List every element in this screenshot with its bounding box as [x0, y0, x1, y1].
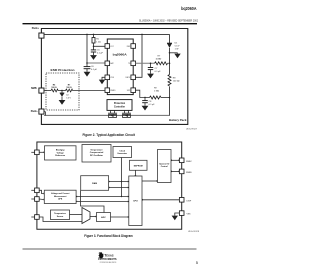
transistor Q1 discharge FET — [108, 110, 117, 117]
wire AFE CPU bus 2 — [76, 201, 129, 203]
footer rule — [23, 248, 197, 250]
node VCC — [93, 46, 95, 48]
svg-text:100 kΩ: 100 kΩ — [173, 80, 180, 83]
svg-text:1 MΩ: 1 MΩ — [154, 90, 159, 93]
block CPU — [129, 176, 142, 226]
node TS filter — [150, 63, 152, 65]
svg-text:R7: R7 — [68, 85, 70, 87]
svg-text:PACK: PACK — [126, 76, 132, 79]
resistor R5 — [92, 34, 101, 50]
wire EEPROM to CPU — [134, 170, 136, 176]
TI logo glyph — [98, 252, 103, 259]
wire x87 vertical to BAT node — [86, 34, 88, 63]
wire Pack+ rail — [44, 33, 170, 35]
pin SR2 fig3 — [31, 197, 39, 202]
block EEPROM — [130, 160, 148, 170]
svg-text:SMB: SMB — [31, 87, 37, 90]
svg-text:Generator: Generator — [117, 152, 127, 155]
resistor R9 — [150, 88, 162, 100]
capacitor C5 — [91, 50, 104, 56]
ground below C6 — [84, 72, 91, 77]
pin VSS left 3 — [105, 75, 115, 80]
svg-text:100 Ω: 100 Ω — [51, 86, 57, 89]
svg-text:Measurement: Measurement — [54, 195, 67, 198]
resistor R6 — [51, 85, 58, 92]
svg-text:Figure 3. Functional Block Dia: Figure 3. Functional Block Diagram — [84, 234, 133, 238]
block RC oscillator — [82, 145, 111, 163]
svg-text:ESD Protection: ESD Protection — [51, 69, 76, 72]
figure 2 credit — [186, 129, 198, 131]
svg-text:Reference: Reference — [55, 154, 66, 157]
wire CPU to system IO — [142, 180, 158, 182]
ground fig3 — [172, 216, 178, 221]
pin SMBD left 4 — [105, 88, 116, 93]
wire AFE CPU bus 1 — [76, 196, 129, 198]
wire pin to bandgap — [39, 151, 44, 153]
header title bq2060A — [181, 6, 197, 11]
wire BAT node to IC pin — [87, 62, 106, 64]
page number — [196, 260, 199, 265]
block system IO control — [158, 150, 172, 183]
footer address — [100, 261, 117, 264]
wire RT to cell stack — [168, 62, 170, 64]
wire mux to ADC — [90, 216, 97, 218]
mux — [82, 208, 90, 224]
wire stub to ground at D1 — [170, 52, 178, 55]
wire R6 to R7 — [58, 90, 66, 92]
resistor R8 vertical — [168, 75, 180, 87]
wire VSS stub to ground — [175, 213, 180, 216]
pin SR1 fig3 — [31, 188, 39, 193]
node SR net — [169, 97, 171, 99]
svg-text:NSTRUMENTS: NSTRUMENTS — [99, 257, 116, 261]
figure 3 credit — [188, 231, 200, 233]
capacitor C8 — [142, 98, 155, 107]
wire cell stack vertical — [167, 34, 170, 115]
block diagram boundary — [37, 142, 182, 229]
svg-text:1 W: 1 W — [175, 49, 179, 51]
wire x142 vertical to PACK pin — [133, 34, 142, 77]
wire R9 to stack node — [161, 97, 170, 99]
ground below C5 — [90, 55, 97, 60]
ground below C8 — [142, 106, 149, 111]
svg-text:1 kΩ: 1 kΩ — [96, 41, 101, 44]
pin TS right 2 — [128, 61, 135, 66]
wire RAM CPU bus 2 — [109, 187, 129, 189]
svg-text:SMBD: SMBD — [186, 172, 192, 174]
node C8 tap — [144, 97, 145, 98]
pin PACK right 3 — [126, 75, 136, 80]
svg-text:RAM: RAM — [92, 182, 97, 185]
svg-text:Figure 2. Typical Application: Figure 2. Typical Application Circuit — [82, 133, 135, 137]
ground at D1 node — [174, 54, 180, 59]
svg-text:VSS: VSS — [187, 214, 192, 216]
svg-text:SLUS500A – JUNE 2002 – REVISED: SLUS500A – JUNE 2002 – REVISED SEPTEMBER… — [139, 19, 199, 23]
svg-text:DISP: DISP — [187, 200, 192, 202]
resistor R7 — [66, 85, 73, 92]
svg-text:Bandgap: Bandgap — [56, 150, 66, 152]
svg-text:Pack−: Pack− — [31, 110, 39, 113]
thermistor RT — [155, 56, 168, 65]
block bandgap reference — [45, 146, 77, 160]
svg-text:UDG-99127: UDG-99127 — [186, 129, 198, 131]
svg-text:Temperature: Temperature — [90, 148, 103, 151]
svg-text:Sensor: Sensor — [57, 216, 64, 218]
wire pin SR1 to AFE — [39, 190, 44, 194]
wire RAM tap down to ADC top — [81, 191, 105, 213]
pin SMBC left 2 — [105, 61, 115, 66]
terminal SMBus — [31, 87, 44, 93]
wire system IO to SMBC — [171, 159, 179, 161]
header rule — [23, 23, 198, 25]
node RT top of stack — [169, 63, 171, 65]
node on Pack+ rail x142 — [141, 34, 143, 36]
node clock bus afe — [121, 196, 122, 197]
zener D1 — [167, 43, 180, 51]
pin VCC left 1 — [105, 44, 115, 49]
figure 2 caption — [82, 133, 135, 137]
svg-text:EEPROM: EEPROM — [134, 165, 143, 167]
header subtitle document number line — [139, 19, 199, 23]
capacitor C7 on TS line — [148, 63, 161, 73]
ground at VSS — [99, 80, 105, 85]
svg-text:Controller: Controller — [114, 106, 125, 109]
wire R7 to SMBD pin — [73, 90, 106, 92]
wire TS line — [136, 62, 155, 64]
pin VSS fig3 — [179, 211, 191, 216]
pin TS fig3 — [31, 215, 39, 220]
svg-text:RC Oscillator: RC Oscillator — [90, 154, 103, 157]
svg-text:UDG-99128: UDG-99128 — [188, 231, 200, 233]
wire SR1 pin to filter — [136, 90, 150, 97]
svg-text:0.1 µF: 0.1 µF — [97, 53, 104, 55]
capacitor C6 — [84, 63, 98, 72]
wire system IO to SMBD — [171, 170, 179, 172]
terminal Pack+ — [32, 27, 44, 38]
block measurement AFE — [44, 190, 76, 203]
svg-text:SR1: SR1 — [127, 90, 131, 92]
svg-text:0.1 µF: 0.1 µF — [149, 104, 156, 106]
wire clock generator bus — [121, 158, 123, 197]
svg-text:SMBC: SMBC — [186, 161, 192, 163]
svg-text:Compensated: Compensated — [90, 151, 104, 154]
wire pin TS to mux — [39, 217, 82, 222]
wire CPU to DISP pin — [142, 199, 179, 201]
svg-text:Control: Control — [161, 165, 168, 168]
wire temp sensor to mux — [70, 214, 83, 216]
block temperature sensor — [51, 210, 70, 220]
wire VSS pin stub — [102, 77, 105, 79]
pin DISP fig3 — [179, 198, 191, 203]
protection controller U2 — [107, 100, 132, 111]
transistor Q2 charge FET — [122, 110, 131, 117]
node D1 anode — [169, 52, 171, 54]
svg-text:CPU: CPU — [133, 201, 138, 203]
node BAT x87 — [86, 62, 88, 64]
svg-text:103AT: 103AT — [156, 58, 163, 61]
block ADC — [97, 213, 111, 222]
pin VCC fig3 — [31, 150, 39, 155]
wire pin SR2 to AFE — [39, 199, 44, 201]
svg-text:R6: R6 — [53, 85, 55, 87]
node clock bus ram — [121, 181, 122, 182]
svg-text:bq2060A: bq2060A — [113, 52, 127, 56]
figure 3 caption — [84, 234, 133, 238]
svg-text:Clock: Clock — [119, 150, 125, 152]
ground below C7 — [147, 74, 154, 79]
pin REF right 1 — [127, 44, 136, 49]
svg-text:Battery Pack: Battery Pack — [169, 118, 187, 122]
svg-text:Temperature: Temperature — [54, 212, 67, 215]
IC U1 bq2060A — [107, 39, 133, 95]
battery pack boundary box — [41, 29, 187, 125]
node D2 tap — [61, 90, 62, 91]
wire Pack- square to rail — [44, 112, 46, 116]
battery pack label — [169, 118, 187, 122]
svg-text:5.6 V: 5.6 V — [66, 97, 71, 99]
node on Pack+ rail x93.5 — [93, 34, 95, 36]
wire ADC to CPU — [111, 216, 129, 218]
svg-text:D2: D2 — [66, 95, 68, 97]
node on Pack+ rail x87 — [86, 34, 88, 36]
wire RAM CPU bus 1 — [109, 181, 129, 183]
svg-text:5.6 V: 5.6 V — [175, 46, 180, 48]
zener D2 — [60, 91, 72, 101]
svg-text:100 Ω: 100 Ω — [66, 86, 72, 89]
block RAM — [81, 176, 109, 191]
svg-text:Pack+: Pack+ — [32, 27, 40, 30]
pin SMBD fig3 — [179, 169, 192, 174]
svg-text:SMBD: SMBD — [110, 90, 116, 92]
wire VCC node to IC pin — [94, 45, 106, 47]
svg-text:ADC: ADC — [101, 216, 106, 219]
TI logo wordmark — [98, 253, 117, 261]
negative rail wire — [44, 114, 170, 116]
block clock generator — [113, 147, 132, 158]
svg-text:Voltage and Current: Voltage and Current — [51, 192, 70, 195]
ESD protection dashed box — [46, 69, 79, 110]
ground below D2 — [59, 100, 66, 105]
svg-text:System I/O: System I/O — [159, 162, 170, 165]
pin SR1 right 4 — [127, 88, 136, 93]
svg-text:bq2060A: bq2060A — [181, 6, 197, 11]
wire SMB terminal to R6 — [44, 90, 51, 92]
pin SMBC fig3 — [179, 158, 192, 163]
svg-text:0.1 µF: 0.1 µF — [155, 71, 162, 73]
svg-text:0.1 µF: 0.1 µF — [91, 69, 98, 71]
svg-text:Voltage: Voltage — [57, 151, 65, 154]
terminal Pack- — [31, 109, 44, 114]
svg-text:Protection: Protection — [114, 102, 126, 105]
